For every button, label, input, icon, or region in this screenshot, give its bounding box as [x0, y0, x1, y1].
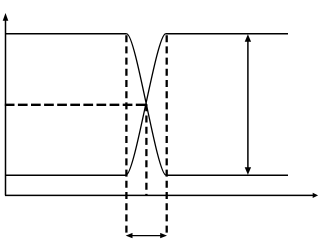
horizontal crossover-width dimension arrow [126, 233, 167, 238]
dashed horizontal mid-level line [5, 104, 147, 106]
x-axis [5, 193, 318, 198]
wire: bottom rail right segment [166, 174, 288, 176]
rising signal transition curve [126, 34, 166, 176]
falling signal transition curve [127, 34, 166, 176]
dashed vertical line left (transition start) [125, 35, 127, 236]
wire: top rail right segment [166, 33, 288, 35]
y-axis [3, 13, 9, 195]
wire: top rail left segment [6, 33, 127, 35]
vertical amplitude dimension arrow [245, 34, 251, 175]
dashed vertical line middle (crossover) [145, 104, 147, 195]
wire: bottom rail left segment [6, 174, 126, 176]
dashed vertical line right (transition end) [166, 35, 168, 236]
